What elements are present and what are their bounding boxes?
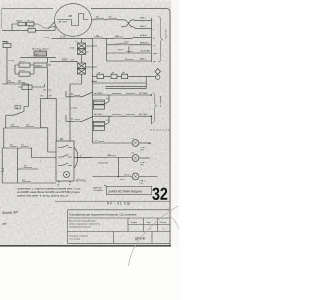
svg-text:РВ-1,2: РВ-1,2 xyxy=(19,61,26,63)
svg-text:Стадия: Стадия xyxy=(130,222,137,224)
svg-text:РСУ: РСУ xyxy=(118,49,123,51)
svg-text:КЗ - 01 СШ: КЗ - 01 СШ xyxy=(107,202,131,206)
svg-text:НО ПА-Х: НО ПА-Х xyxy=(94,92,103,95)
svg-text:Абонентский ввод-Шиновка: Абонентский ввод-Шиновка xyxy=(69,220,97,223)
svg-text:НО ПА-7: НО ПА-7 xyxy=(94,113,103,116)
svg-text:АКВ-7: АКВ-7 xyxy=(140,58,147,61)
svg-text:ИМ: ИМ xyxy=(148,143,151,145)
svg-text:С-2/42: С-2/42 xyxy=(71,107,78,109)
svg-text:зажимы типа смене "В" на РЩ. В: зажимы типа смене "В" на РЩ. Высота 380/… xyxy=(17,195,69,197)
svg-text:камерой Богословская: камерой Богословская xyxy=(69,226,91,229)
svg-text:ВЛ-10: ВЛ-10 xyxy=(29,27,36,29)
svg-text:ЕЗ/О: ЕЗ/О xyxy=(62,58,68,61)
svg-text:ДГУ: ДГУ xyxy=(35,54,40,56)
svg-text:2Н: 2Н xyxy=(26,125,29,127)
svg-text:КЛ2-Н: КЛ2-Н xyxy=(16,20,23,22)
svg-text:РС: РС xyxy=(106,99,109,101)
svg-text:АСУ-В: АСУ-В xyxy=(32,48,39,51)
svg-text:НВБ: НВБ xyxy=(153,53,158,55)
svg-text:2В: 2В xyxy=(69,14,72,18)
svg-text:ДУ: ДУ xyxy=(60,138,64,141)
svg-text:М-1-2: М-1-2 xyxy=(120,179,126,181)
svg-text:МКВ-Б1.1: МКВ-Б1.1 xyxy=(140,43,150,45)
svg-text:РС: РС xyxy=(106,120,109,122)
svg-text:2ВН-а: 2ВН-а xyxy=(3,42,10,44)
svg-text:щт: щт xyxy=(2,222,8,226)
svg-text:АВ ТСВК: АВ ТСВК xyxy=(59,21,68,24)
svg-text:САПР-ЮТ: САПР-ЮТ xyxy=(93,186,103,189)
svg-text:АКВ-2: АКВ-2 xyxy=(140,25,147,28)
svg-text:ЛГО: ЛГО xyxy=(140,183,144,185)
svg-text:сети энерго: сети энерго xyxy=(69,239,81,241)
svg-text:АКВ-1: АКВ-1 xyxy=(140,16,147,19)
svg-text:С-10: С-10 xyxy=(60,36,66,39)
svg-text:С-2Ц: С-2Ц xyxy=(9,60,15,62)
svg-text:НО ПА-Х: НО ПА-Х xyxy=(139,92,148,95)
svg-text:резерв СШ: резерв СШ xyxy=(159,96,161,107)
svg-text:на 2x220Вт, шкаф РЩ на 12x110В: на 2x220Вт, шкаф РЩ на 12x110Вт, реле НР… xyxy=(17,191,80,194)
svg-text:Примечание: 1. Обмотки и зажим: Примечание: 1. Обмотки и зажимы установк… xyxy=(17,188,81,190)
svg-text:С-2Ц: С-2Ц xyxy=(44,37,50,39)
svg-text:2В/АСУ: 2В/АСУ xyxy=(35,64,43,67)
svg-text:2СШ: 2СШ xyxy=(70,48,75,50)
svg-text:АСВ-В: АСВ-В xyxy=(140,34,147,37)
svg-text:Листов: Листов xyxy=(160,222,168,224)
svg-text:НО ПА-7: НО ПА-7 xyxy=(139,113,148,116)
svg-text:РЛ-1,2: РЛ-1,2 xyxy=(27,20,34,22)
svg-text:РСУ: РСУ xyxy=(125,42,130,44)
svg-text:СК-Н,АВ-м: СК-Н,АВ-м xyxy=(93,189,104,192)
svg-text:Д: Д xyxy=(16,105,18,109)
svg-text:РСУ: РСУ xyxy=(115,43,120,45)
svg-text:2СШ-10кВ: 2СШ-10кВ xyxy=(98,163,108,165)
svg-text:ЗАРЕГИСТРИР.ЛИЦАМ: ЗАРЕГИСТРИР.ЛИЦАМ xyxy=(108,189,142,193)
svg-text:РЛ-2а: РЛ-2а xyxy=(19,70,25,72)
svg-text:а-Н: а-Н xyxy=(71,60,75,62)
svg-text:1П: 1П xyxy=(22,180,25,182)
svg-text:1Н: 1Н xyxy=(11,125,14,127)
svg-text:АСУ-4: АСУ-4 xyxy=(43,48,50,51)
svg-text:МТУ РЩ: МТУ РЩ xyxy=(76,180,86,183)
svg-text:Элити ФР: Элити ФР xyxy=(2,210,19,215)
svg-text:ткВ-В НВБ: ткВ-В НВБ xyxy=(140,51,151,53)
svg-text:ЛГО: ЛГО xyxy=(140,164,144,166)
svg-text:Трансформаторы напряжения вспо: Трансформаторы напряжения вспомогат. СШ … xyxy=(69,212,137,216)
svg-text:Лист: Лист xyxy=(147,222,152,224)
svg-text:Западные электрич.: Западные электрич. xyxy=(69,235,89,237)
svg-text:ЛГО: ЛГО xyxy=(140,149,144,151)
svg-text:кабель напряжения линий 10 Гц: кабель напряжения линий 10 Гц xyxy=(69,223,101,226)
svg-text:СШ 10кВ: СШ 10кВ xyxy=(165,29,167,39)
